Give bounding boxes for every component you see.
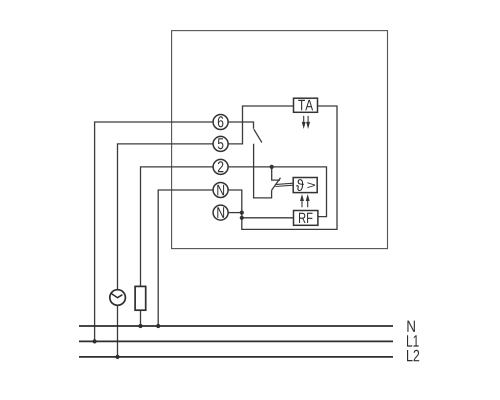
thermostat fixed contact bar (272, 167, 280, 180)
terminal N lower (213, 205, 228, 220)
terminal N upper (213, 183, 228, 198)
junction bus L1 (92, 339, 96, 343)
timer clock symbol (110, 290, 126, 306)
thermostat contact blade (272, 178, 281, 190)
resistor load (135, 286, 146, 310)
wire terminal6 to switch pivot (228, 122, 253, 129)
wire resistor to N (140, 310, 142, 326)
junction node 2 (270, 165, 274, 169)
wire terminal5 left to timer (118, 144, 214, 290)
wire terminal2 to RF right loop (228, 167, 326, 217)
arrows TA down (302, 116, 309, 127)
terminal 2 (213, 159, 228, 174)
bus L2 (79, 356, 393, 358)
wire terminalN1 left to N (158, 190, 213, 326)
arrows RF up (301, 196, 309, 207)
box RF (294, 211, 318, 226)
box TA (294, 98, 318, 112)
terminal 5 (213, 136, 228, 151)
wire timer to L2 (117, 305, 119, 357)
terminal 6 (213, 115, 228, 130)
junction resistor bus N (138, 324, 142, 328)
bus N (79, 325, 393, 327)
junction RF feed (240, 216, 244, 220)
device outline (172, 31, 388, 249)
thermostat box (293, 178, 317, 193)
bus L1 (79, 340, 393, 342)
wire terminal2 left to resistor (141, 167, 214, 287)
wire junction to RF left (242, 217, 294, 219)
junction bus L2 (115, 355, 119, 359)
junction N1 bus N (156, 324, 160, 328)
switch blade (TA relay contact, open) (254, 129, 262, 142)
mechanical link (275, 183, 293, 186)
junction N2 (240, 211, 244, 215)
wire TA right loop to N terminals (228, 106, 337, 229)
wire terminalN2 to junction (228, 212, 242, 214)
wire switch fixed contact down to thermostat (254, 144, 272, 198)
wire terminal5 to TA (228, 106, 293, 144)
wire terminal6 left to vertical (95, 122, 214, 341)
